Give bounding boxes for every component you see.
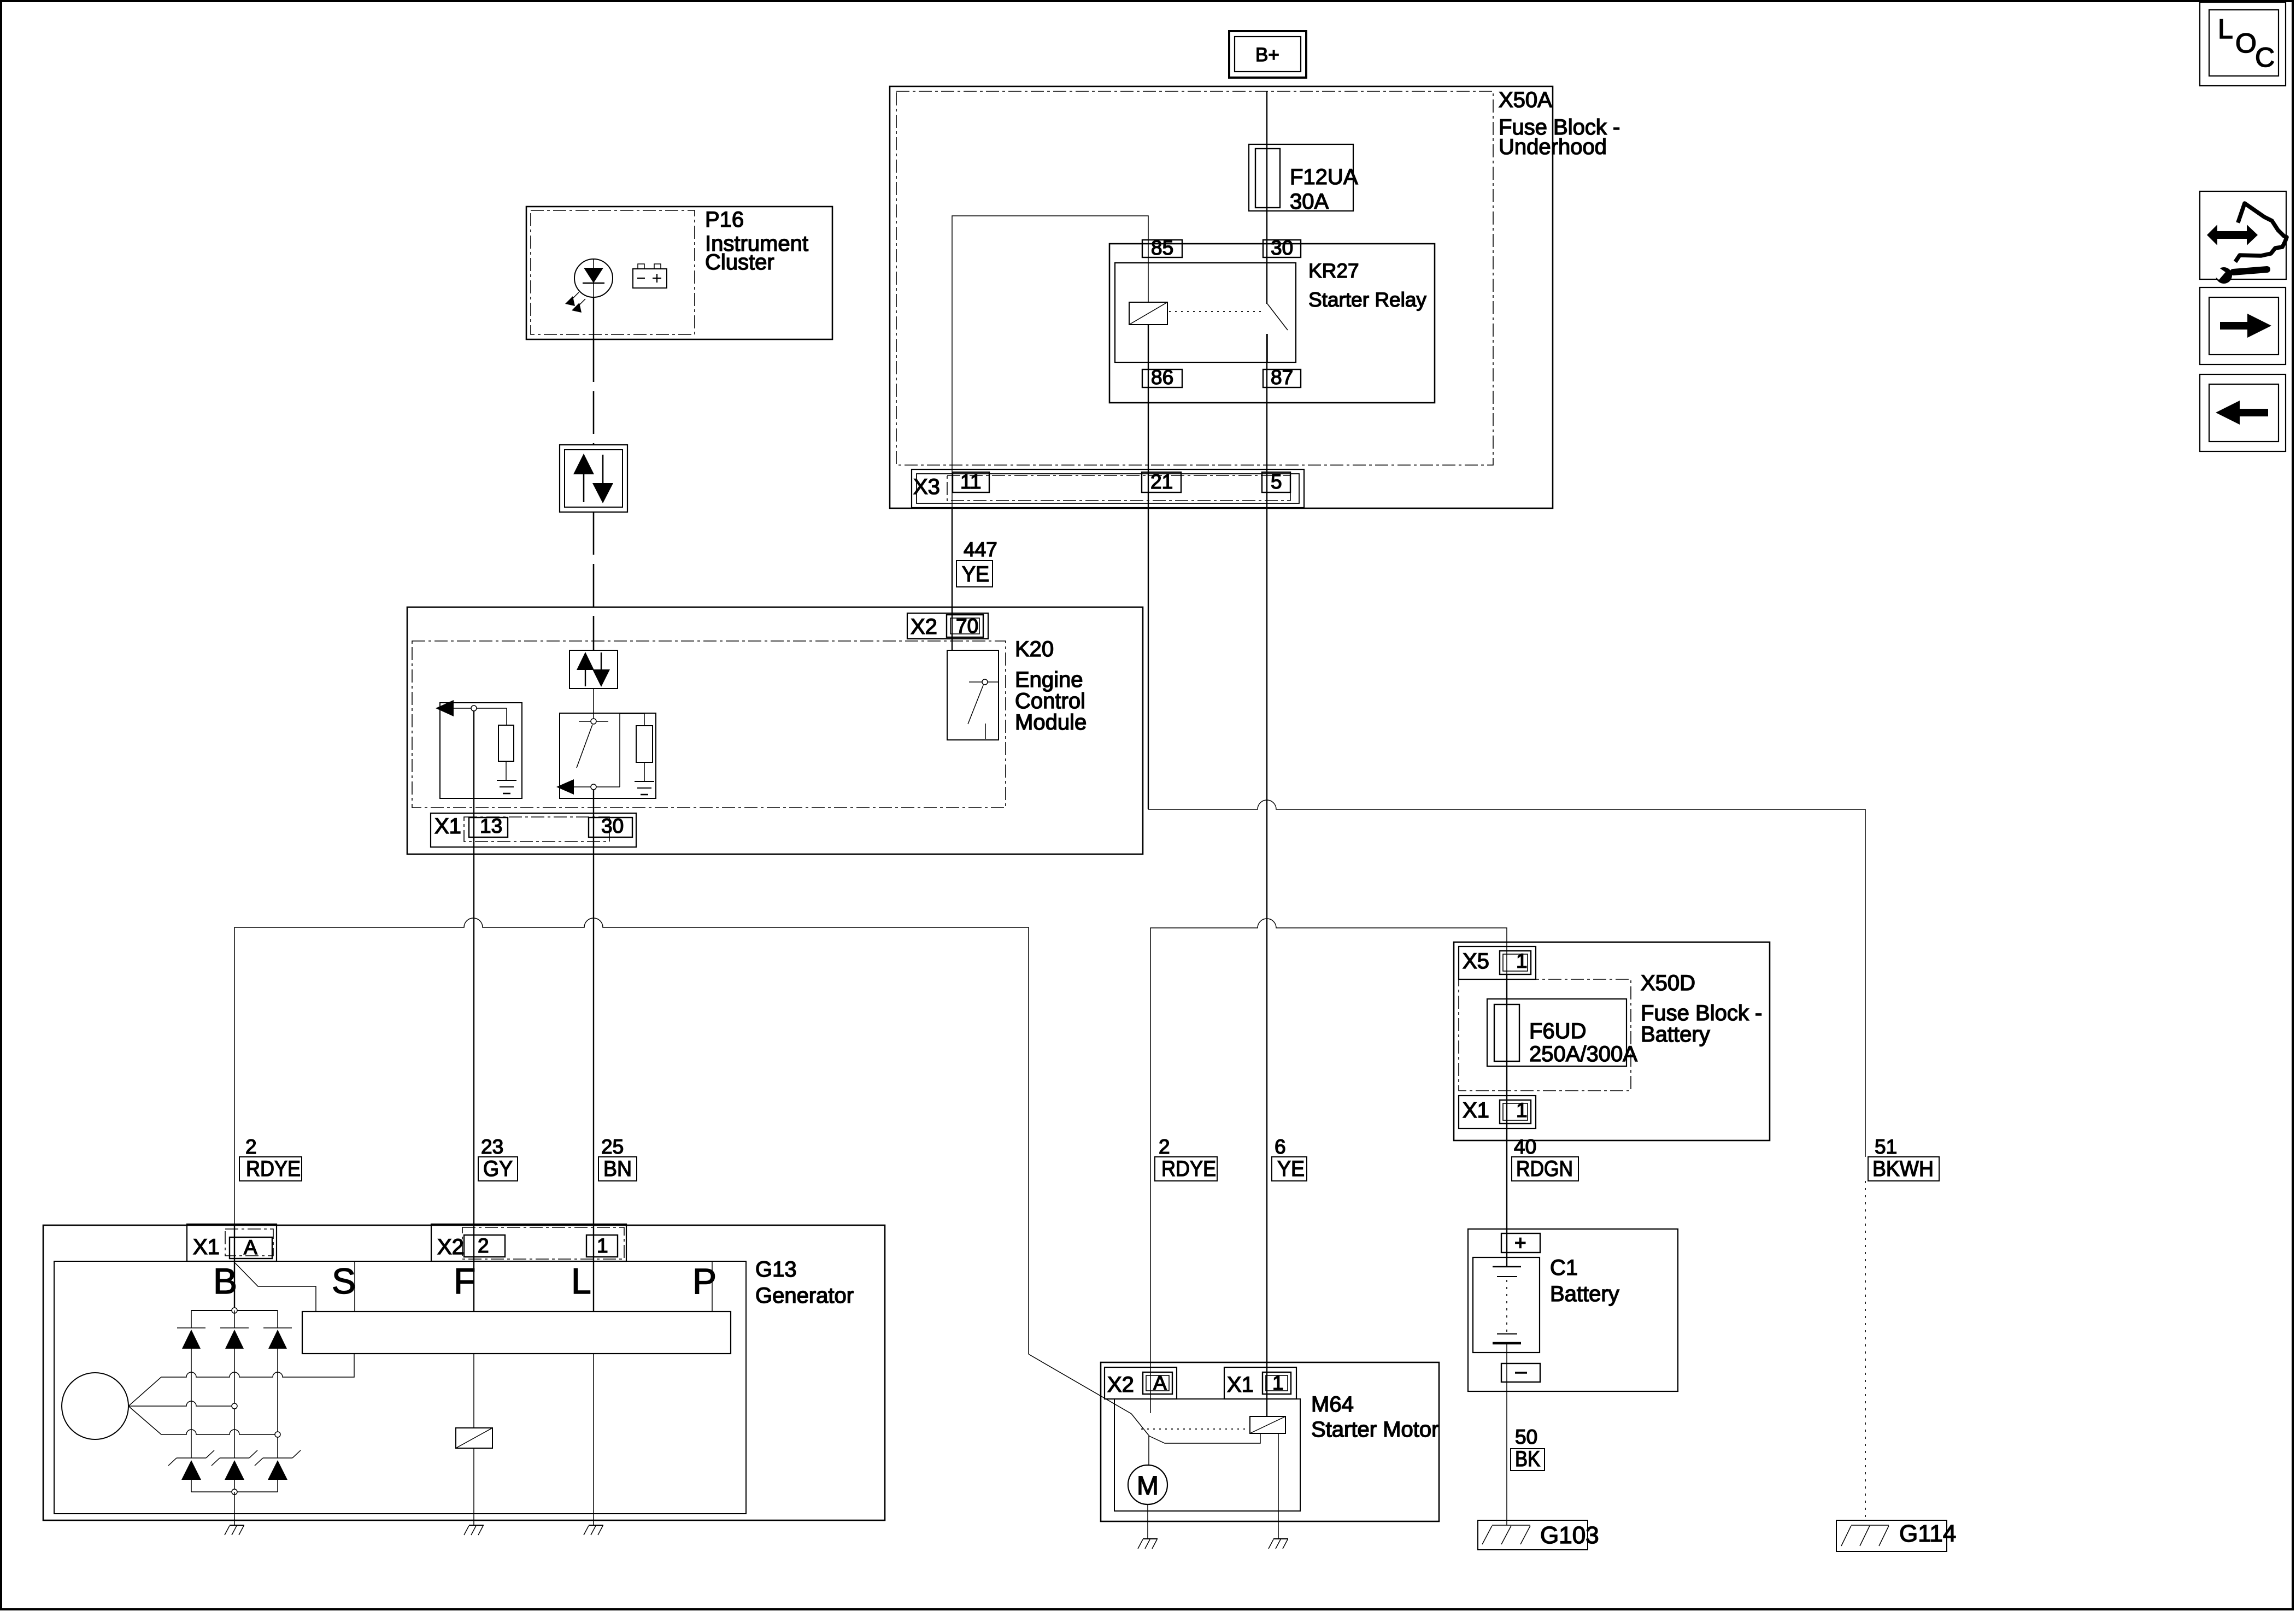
connector X3 pin 11 bbox=[953, 471, 989, 493]
svg-text:1: 1 bbox=[597, 1234, 608, 1257]
fuse F6UD 250A/300A bbox=[1487, 999, 1637, 1066]
wire X5-1 through fuse F6UD to X1-1 bbox=[1506, 974, 1507, 1267]
starter contact blade bbox=[1131, 1414, 1149, 1436]
svg-text:X3: X3 bbox=[913, 475, 940, 499]
svg-text:Generator: Generator bbox=[755, 1284, 854, 1308]
connector X1 pin 13 bbox=[469, 815, 508, 837]
relay pin 86 bbox=[1142, 366, 1182, 389]
wire starter contact to solenoid return bbox=[1149, 1433, 1260, 1443]
wire B+ feed down through fuse F12UA to relay 30 bbox=[1266, 91, 1267, 304]
svg-text:Starter Motor: Starter Motor bbox=[1311, 1418, 1438, 1442]
connector X1 pin 30 bbox=[589, 815, 632, 837]
svg-text:6: 6 bbox=[1275, 1136, 1286, 1158]
wire P16 lamp to box bottom bbox=[593, 297, 594, 339]
svg-text:G103: G103 bbox=[1540, 1522, 1599, 1549]
svg-text:1: 1 bbox=[1516, 950, 1528, 972]
ground starter solenoid bbox=[1269, 1539, 1288, 1549]
wire 51 BKWH dotted lower portion to G114 bbox=[1865, 1181, 1866, 1520]
battery C1 box bbox=[1468, 1229, 1678, 1391]
relay pin 30 bbox=[1263, 237, 1301, 259]
svg-text:2: 2 bbox=[245, 1136, 257, 1158]
svg-text:25: 25 bbox=[601, 1136, 624, 1158]
K20 internal serial data symbol bbox=[569, 650, 618, 689]
svg-text:X50A: X50A bbox=[1499, 88, 1552, 112]
svg-text:YE: YE bbox=[1277, 1157, 1305, 1181]
fuse block X50D box bbox=[1454, 942, 1770, 1140]
engine control module K20 box bbox=[407, 607, 1143, 854]
wire motor to ground bbox=[1147, 1504, 1148, 1539]
K20 internal ground (field circuit) bbox=[497, 780, 516, 793]
wire K20 field output down to generator F (circuit 23 GY) bbox=[473, 711, 474, 1312]
svg-text:P16: P16 bbox=[705, 208, 744, 232]
label X50A Fuse Block - Underhood bbox=[1499, 88, 1620, 159]
rectifier top bus bbox=[191, 1310, 278, 1311]
svg-text:Battery: Battery bbox=[1641, 1022, 1710, 1046]
connector X1 pin 1 on X50D bbox=[1459, 1096, 1536, 1128]
svg-text:C1: C1 bbox=[1550, 1256, 1578, 1280]
node B+ junction on top bus bbox=[232, 1308, 237, 1313]
label circuit 2 RDYE (generator) bbox=[239, 1136, 302, 1181]
label circuit 50 BK bbox=[1511, 1426, 1545, 1471]
rectifier zener diode bottom column 2 bbox=[212, 1450, 257, 1492]
svg-text:P: P bbox=[692, 1261, 717, 1301]
label circuit 6 YE bbox=[1272, 1136, 1307, 1181]
label P16 Instrument Cluster bbox=[705, 208, 808, 274]
generator S sense tap from B terminal bbox=[235, 1263, 316, 1312]
connector X2 pin 2 bbox=[464, 1234, 505, 1257]
motor M64 armature bbox=[1128, 1465, 1167, 1504]
K20 internal lamp driver switch with output arrow bbox=[556, 713, 656, 798]
generator G13 box bbox=[43, 1225, 885, 1520]
wire relay 86 down through X3-21 (coil ground side) bbox=[1148, 325, 1149, 809]
ground generator field bbox=[464, 1525, 484, 1535]
svg-text:30A: 30A bbox=[1290, 190, 1329, 214]
label circuit 2 RDYE (starter) bbox=[1155, 1136, 1217, 1181]
svg-text:Battery: Battery bbox=[1550, 1282, 1619, 1306]
label circuit 40 RDGN bbox=[1512, 1136, 1578, 1181]
svg-text:250A/300A: 250A/300A bbox=[1529, 1042, 1637, 1066]
wire battery negative to G103 (circuit 50 BK) bbox=[1506, 1343, 1507, 1525]
connector X1 pin A on G13 bbox=[187, 1224, 277, 1261]
connector X1 pin 1 on M64 bbox=[1224, 1367, 1296, 1399]
svg-text:21: 21 bbox=[1150, 471, 1173, 493]
wire generator feed diagonal into starter battery stud bbox=[1029, 1354, 1131, 1414]
svg-text:L: L bbox=[2218, 14, 2233, 44]
svg-text:Module: Module bbox=[1015, 710, 1087, 734]
relay KR27 switch blade and contact bbox=[1267, 304, 1288, 362]
stator phase lead 1 with hops bbox=[128, 1354, 354, 1406]
svg-text:C: C bbox=[2255, 42, 2275, 73]
svg-text:X2: X2 bbox=[911, 615, 937, 639]
svg-text:1: 1 bbox=[1516, 1099, 1528, 1121]
generator terminal separators S and P bbox=[355, 1261, 712, 1312]
svg-text:30: 30 bbox=[601, 815, 624, 837]
wire generator B+ output up and across (circuit 2 RDYE) with hops over 23GY and 25BN bbox=[234, 918, 1029, 1354]
svg-text:447: 447 bbox=[964, 538, 997, 561]
connector X1 row on K20 bbox=[431, 813, 636, 847]
connector X2 pin A on M64 bbox=[1105, 1367, 1177, 1399]
svg-text:F12UA: F12UA bbox=[1290, 165, 1358, 189]
wire X3-21 to G114 horizontal run with hop over 6YE wire (circuit 51) bbox=[1148, 800, 1865, 1157]
generator terminal letters B S F L P bbox=[213, 1261, 717, 1301]
relay pin 85 bbox=[1142, 237, 1182, 259]
label circuit 23 GY bbox=[478, 1136, 518, 1181]
svg-text:BK: BK bbox=[1515, 1447, 1540, 1471]
svg-text:23: 23 bbox=[481, 1136, 503, 1158]
connector X2 pins 2 and 1 on G13 bbox=[431, 1224, 626, 1261]
label circuit 51 BKWH bbox=[1868, 1136, 1939, 1181]
svg-text:2: 2 bbox=[478, 1234, 489, 1257]
svg-text:RDGN: RDGN bbox=[1516, 1157, 1573, 1181]
svg-text:70: 70 bbox=[956, 615, 978, 637]
svg-text:X1: X1 bbox=[1463, 1098, 1489, 1122]
K20 internal ground (lamp circuit) bbox=[635, 781, 654, 795]
svg-text:RDYE: RDYE bbox=[246, 1157, 301, 1181]
ground generator B column bbox=[225, 1525, 244, 1535]
ground G103 bbox=[1478, 1520, 1599, 1550]
svg-text:B: B bbox=[213, 1261, 237, 1301]
label X50D Fuse Block - Battery bbox=[1641, 971, 1762, 1046]
K20 internal resistor (field circuit) bbox=[498, 725, 514, 780]
svg-text:G13: G13 bbox=[755, 1257, 797, 1281]
svg-text:K20: K20 bbox=[1015, 637, 1054, 661]
stator phase lead 3 with hops bbox=[128, 1406, 275, 1434]
svg-text:Starter Relay: Starter Relay bbox=[1308, 289, 1426, 311]
fuse block X50A inner dash-dot boundary bbox=[896, 91, 1493, 465]
rectifier bottom bus bbox=[191, 1491, 278, 1492]
svg-text:G114: G114 bbox=[1899, 1520, 1956, 1547]
label G13 Generator bbox=[755, 1257, 854, 1308]
label circuit 447 YE bbox=[956, 538, 997, 587]
B+ voltage terminal bbox=[1229, 31, 1306, 78]
connector X5 pin 1 on X50D bbox=[1459, 946, 1536, 979]
svg-text:X1: X1 bbox=[193, 1235, 220, 1259]
svg-text:+: + bbox=[1514, 1232, 1526, 1254]
wire battery feed to starter and fuse block X50D (circuit 2 RDYE) with hop over 6YE bbox=[1150, 919, 1507, 1413]
label K20 Engine Control Module bbox=[1015, 637, 1087, 734]
ground G114 bbox=[1836, 1520, 1956, 1551]
svg-text:M: M bbox=[1137, 1472, 1159, 1501]
starter motor M64 box bbox=[1101, 1362, 1439, 1521]
svg-text:KR27: KR27 bbox=[1308, 260, 1359, 282]
back arrow icon box bbox=[2200, 374, 2286, 451]
svg-text:X2: X2 bbox=[437, 1235, 464, 1259]
wire data symbol to lamp driver switch bbox=[593, 689, 594, 719]
battery cell symbol bbox=[1473, 1257, 1540, 1353]
LOC reference icon box bbox=[2200, 2, 2286, 86]
svg-text:BN: BN bbox=[603, 1157, 632, 1181]
svg-text:Engine: Engine bbox=[1015, 668, 1083, 692]
generator voltage regulator bar bbox=[302, 1312, 731, 1354]
svg-text:F: F bbox=[454, 1261, 475, 1301]
node ground junction on bottom bus bbox=[232, 1489, 237, 1495]
generator stator winding bbox=[62, 1373, 128, 1439]
svg-text:51: 51 bbox=[1875, 1136, 1897, 1158]
connector X2 pin 1 bbox=[586, 1234, 618, 1257]
svg-text:85: 85 bbox=[1151, 237, 1173, 259]
relay KR27 coil bbox=[1129, 302, 1167, 325]
svg-text:X1: X1 bbox=[434, 814, 461, 838]
starter solenoid coil M64 bbox=[1250, 1416, 1285, 1433]
wire 447 through pin 70 into K20 bbox=[952, 508, 953, 650]
svg-text:F6UD: F6UD bbox=[1529, 1019, 1586, 1043]
svg-text:X1: X1 bbox=[1227, 1373, 1254, 1397]
svg-text:86: 86 bbox=[1151, 366, 1173, 389]
node phase 3 junction bbox=[275, 1432, 280, 1437]
fuse F12UA 30A bbox=[1249, 144, 1358, 214]
wire generator F column through field to ground bbox=[473, 1354, 474, 1525]
rectifier zener diode bottom column 1 bbox=[168, 1450, 214, 1492]
battery negative terminal bbox=[1501, 1363, 1540, 1382]
svg-text:M64: M64 bbox=[1311, 1392, 1354, 1416]
wire K20 lamp output down to generator L (circuit 25 BN) bbox=[593, 790, 594, 1312]
label circuit 25 BN bbox=[598, 1136, 637, 1181]
svg-text:L: L bbox=[571, 1261, 591, 1301]
svg-text:2: 2 bbox=[1159, 1136, 1170, 1158]
connector X2 pin 70 on K20 bbox=[907, 613, 988, 639]
ground generator L column bbox=[584, 1525, 603, 1535]
wire X3-11 up and over to relay pin 85 bbox=[952, 216, 1148, 650]
wire serial data symbol to K20 (dashed) bbox=[593, 512, 595, 650]
svg-text:S: S bbox=[332, 1261, 356, 1301]
generator field winding bbox=[456, 1428, 492, 1448]
svg-text:X50D: X50D bbox=[1641, 971, 1695, 995]
forward arrow icon box bbox=[2200, 287, 2286, 364]
svg-text:Cluster: Cluster bbox=[705, 250, 774, 274]
K20 internal pull-up resistor (lamp circuit) bbox=[636, 726, 653, 781]
wire serial data P16 to symbol (dashed) bbox=[593, 339, 595, 445]
connector X3 pin 21 bbox=[1142, 471, 1181, 493]
node phase 2 junction bbox=[232, 1403, 237, 1409]
svg-text:Underhood: Underhood bbox=[1499, 135, 1607, 159]
svg-text:40: 40 bbox=[1514, 1136, 1536, 1158]
svg-text:X5: X5 bbox=[1463, 949, 1489, 973]
wire generator L column to ground bbox=[593, 1354, 594, 1525]
svg-text:B+: B+ bbox=[1255, 44, 1279, 66]
relay pin 87 bbox=[1263, 366, 1301, 389]
battery symbol icon in P16 bbox=[633, 264, 667, 288]
label C1 Battery bbox=[1550, 1256, 1619, 1306]
svg-text:RDYE: RDYE bbox=[1161, 1157, 1216, 1181]
solenoid actuation dotted link bbox=[1141, 1428, 1249, 1430]
relay KR27 actuation dotted link bbox=[1169, 311, 1262, 312]
wire solenoid to ground bbox=[1278, 1433, 1279, 1539]
svg-text:A: A bbox=[244, 1236, 257, 1259]
relay KR27 Starter Relay bbox=[1109, 244, 1435, 403]
svg-text:X2: X2 bbox=[1107, 1373, 1134, 1397]
rectifier diode top column 1 bbox=[177, 1310, 205, 1458]
serial data link symbol bbox=[560, 445, 627, 512]
wire blade to motor bbox=[1148, 1436, 1149, 1465]
svg-text:Fuse Block -: Fuse Block - bbox=[1641, 1001, 1762, 1025]
label M64 Starter Motor bbox=[1311, 1392, 1438, 1442]
indicator lamp (battery telltale) in P16 bbox=[565, 259, 613, 313]
rectifier diode top column 3 bbox=[263, 1310, 292, 1458]
svg-text:YE: YE bbox=[962, 562, 989, 586]
svg-text:BKWH: BKWH bbox=[1872, 1157, 1934, 1181]
svg-text:O: O bbox=[2235, 28, 2257, 58]
wire relay 87 down to X3-5 and M64 X1-1 (circuit 6 YE) bbox=[1266, 334, 1267, 1416]
diagnostic (car data / wrench) icon box bbox=[2200, 191, 2287, 284]
instrument cluster P16 box bbox=[526, 207, 832, 339]
svg-text:A: A bbox=[1153, 1372, 1167, 1394]
stator phase lead 2 with hop bbox=[128, 1401, 232, 1406]
svg-text:13: 13 bbox=[480, 815, 502, 837]
svg-text:5: 5 bbox=[1271, 471, 1282, 493]
svg-text:50: 50 bbox=[1515, 1426, 1537, 1448]
svg-text:1: 1 bbox=[1272, 1372, 1284, 1394]
rectifier zener diode bottom column 3 bbox=[255, 1450, 301, 1492]
svg-text:30: 30 bbox=[1271, 237, 1293, 259]
svg-text:GY: GY bbox=[483, 1157, 513, 1181]
connector X3 pin 5 bbox=[1262, 471, 1290, 493]
battery positive terminal bbox=[1501, 1232, 1540, 1254]
ground starter motor bbox=[1138, 1539, 1158, 1549]
svg-text:11: 11 bbox=[960, 471, 981, 493]
K20 internal field control: left arrow and resistor bbox=[436, 700, 522, 798]
rectifier diode top column 2 bbox=[220, 1310, 249, 1458]
wire bottom bus to generator case ground bbox=[234, 1492, 235, 1525]
fuse block X50A outline bbox=[890, 86, 1553, 508]
svg-text:87: 87 bbox=[1271, 366, 1293, 389]
label KR27 Starter Relay bbox=[1308, 260, 1426, 311]
connector X3 row on X50A bbox=[912, 469, 1304, 508]
K20 internal starter enable switch bbox=[947, 650, 999, 740]
svg-text:Control: Control bbox=[1015, 689, 1085, 713]
wire generator B column X1-A down to rectifier bus bbox=[234, 1224, 235, 1310]
